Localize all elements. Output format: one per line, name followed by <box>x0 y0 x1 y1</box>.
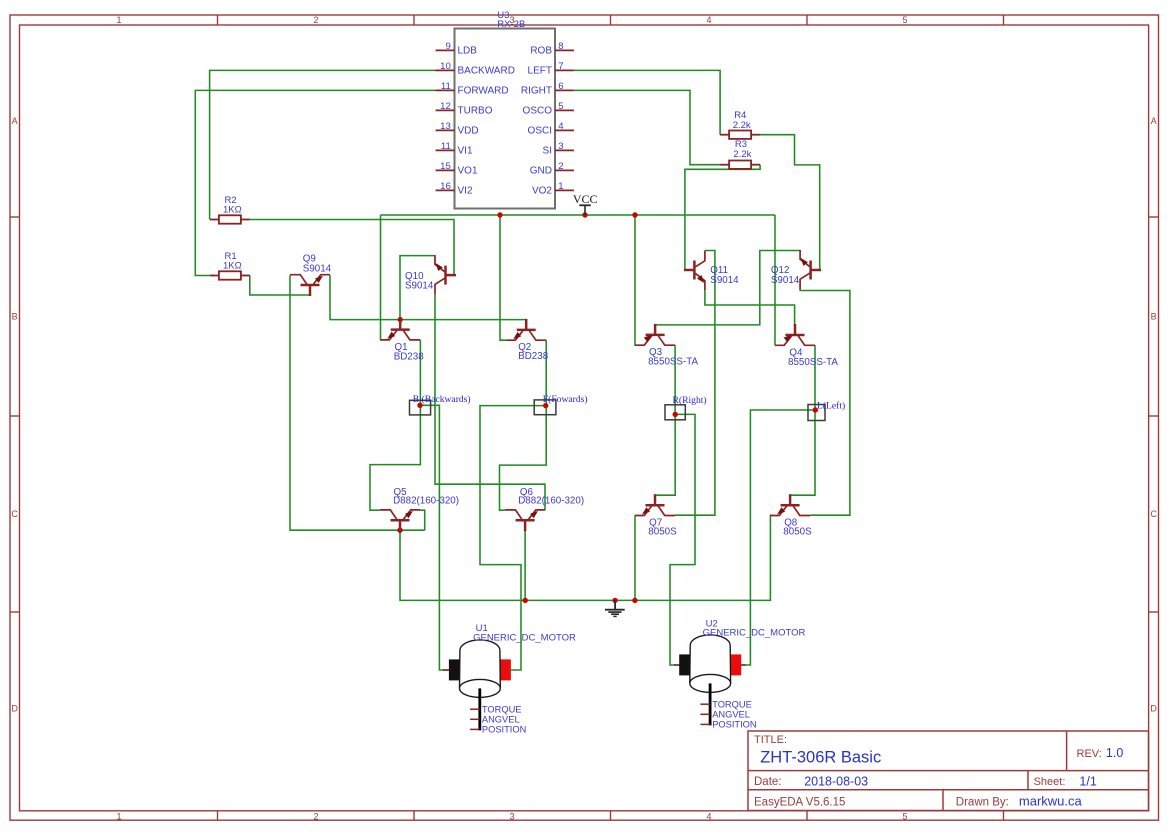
transistor Q1 BD238 <box>380 319 420 340</box>
svg-text:11: 11 <box>441 141 451 152</box>
svg-text:S9014: S9014 <box>303 264 332 275</box>
node R(Right) <box>665 395 707 420</box>
transistor Q11 S9014 <box>684 251 705 291</box>
pin 9 LDB <box>436 41 478 57</box>
wire Q6 base to ground rail <box>524 530 526 600</box>
svg-text:12: 12 <box>440 101 451 112</box>
wire Q12 emitter to Q3 base <box>655 251 800 325</box>
wire LEFT pin7 to R4 left <box>574 70 720 134</box>
transistor Q9 S9014 <box>290 275 330 296</box>
wire BACKWARD pin10 to R2 left <box>210 70 436 219</box>
resistor R1 1KΩ <box>210 251 250 280</box>
wire Q5 emitter loop <box>420 510 425 530</box>
node B (Backwards) <box>410 394 471 415</box>
wire node F to motor U1 terminal 2 <box>480 406 546 670</box>
junction Q1 base <box>398 317 403 322</box>
junction ground flag <box>612 598 617 603</box>
svg-text:4: 4 <box>706 811 711 821</box>
svg-text:TURBO: TURBO <box>458 106 493 117</box>
svg-text:2: 2 <box>313 811 318 821</box>
svg-text:ANGVEL: ANGVEL <box>482 715 520 725</box>
wire FORWARD pin11 to R1 left <box>195 90 436 275</box>
wire VCC to Q1 emitter <box>379 215 381 340</box>
svg-text:ROB: ROB <box>530 46 552 57</box>
svg-text:SI: SI <box>543 146 552 157</box>
lead motor U2 terminal 2 <box>741 664 746 666</box>
title block <box>748 731 1149 811</box>
transistor Q2 BD238 <box>506 319 546 340</box>
svg-text:S9014: S9014 <box>405 281 434 292</box>
svg-text:D: D <box>1150 704 1157 714</box>
transistor Q5 D882(160-320) <box>380 510 420 531</box>
transistor Q8 8050S <box>770 494 810 515</box>
svg-text:A: A <box>1151 116 1157 126</box>
svg-text:11: 11 <box>441 81 451 92</box>
svg-text:F(Fowards): F(Fowards) <box>543 394 588 405</box>
svg-text:TORQUE: TORQUE <box>482 704 522 714</box>
pin 8 ROB <box>530 41 574 57</box>
svg-text:TITLE:: TITLE: <box>754 734 787 746</box>
svg-text:A: A <box>12 116 18 126</box>
svg-text:GND: GND <box>530 166 552 177</box>
svg-text:D882(160-320): D882(160-320) <box>393 496 459 507</box>
wire R2 right to Q10 base <box>250 220 455 276</box>
pin 12 TURBO <box>436 101 493 117</box>
svg-text:3: 3 <box>509 811 514 821</box>
pin 13 VDD <box>436 121 479 137</box>
svg-text:ANGVEL: ANGVEL <box>712 710 750 720</box>
ground <box>605 600 625 616</box>
node L(Left) <box>808 401 845 421</box>
wire R3 right to Q11 base <box>685 165 760 270</box>
svg-text:GENERIC_DC_MOTOR: GENERIC_DC_MOTOR <box>703 627 806 638</box>
transistor Q4 8550SS-TA <box>775 324 815 345</box>
svg-text:8050S: 8050S <box>783 526 812 537</box>
transistor Q7 8050S <box>635 494 675 515</box>
svg-text:Date:: Date: <box>754 776 782 788</box>
svg-text:VI2: VI2 <box>458 186 473 197</box>
svg-text:15: 15 <box>440 161 451 172</box>
svg-text:POSITION: POSITION <box>712 720 756 730</box>
svg-text:5: 5 <box>902 811 907 821</box>
svg-text:C: C <box>11 509 18 519</box>
svg-text:FORWARD: FORWARD <box>458 86 509 97</box>
svg-text:Sheet:: Sheet: <box>1034 776 1066 788</box>
svg-text:3: 3 <box>558 141 563 152</box>
pin 3 SI <box>543 141 574 157</box>
wire Q10 collector to Q6 emitter <box>435 295 545 511</box>
wire Q12 collector to Q8 collector <box>800 290 850 516</box>
pin 11 VI1 <box>436 141 473 157</box>
pin 16 VI2 <box>436 181 473 197</box>
wire R1 right to Q9 base <box>250 276 310 296</box>
svg-text:C: C <box>1150 509 1157 519</box>
svg-text:OSCI: OSCI <box>528 126 552 137</box>
pin 11 FORWARD <box>436 81 509 97</box>
svg-text:OSCO: OSCO <box>523 106 553 117</box>
wire node B to motor U1 terminal 1 <box>420 405 444 670</box>
svg-text:VDD: VDD <box>458 126 479 137</box>
wire Q2 collector through node F to Q6 collector <box>500 340 547 510</box>
svg-text:6: 6 <box>558 81 563 92</box>
svg-text:BD238: BD238 <box>394 352 425 363</box>
svg-text:LDB: LDB <box>458 46 478 57</box>
wire VCC to Q3 emitter <box>634 215 636 345</box>
junction ground Q7 <box>632 598 637 603</box>
svg-text:B: B <box>12 312 18 322</box>
wire Q11 emitter to Q4 base <box>705 290 795 326</box>
wire node L to motor U2 terminal 2 <box>745 410 816 665</box>
svg-text:REV:: REV: <box>1077 748 1102 760</box>
svg-text:8550SS-TA: 8550SS-TA <box>788 357 838 368</box>
pin 4 OSCI <box>528 121 574 137</box>
svg-text:B: B <box>1151 312 1157 322</box>
svg-text:D: D <box>11 704 18 714</box>
junction ground Q6 <box>523 598 528 603</box>
junction VCC-Q3 <box>632 212 637 217</box>
svg-text:GENERIC_DC_MOTOR: GENERIC_DC_MOTOR <box>473 632 576 643</box>
svg-text:TORQUE: TORQUE <box>712 699 752 709</box>
svg-text:10: 10 <box>440 61 451 72</box>
lead motor U2 terminal 1 <box>674 664 680 666</box>
svg-text:VO2: VO2 <box>532 186 552 197</box>
svg-text:LEFT: LEFT <box>528 66 552 77</box>
svg-text:S9014: S9014 <box>710 275 739 286</box>
svg-text:RX-2B: RX-2B <box>497 19 525 30</box>
svg-text:L(Left): L(Left) <box>817 401 845 412</box>
svg-text:BACKWARD: BACKWARD <box>458 66 515 77</box>
wire Q11 collector to Q7 collector <box>675 251 715 516</box>
junction Q5 base-emitter <box>397 528 402 533</box>
wire Q7 emitter to ground rail <box>634 515 636 600</box>
svg-text:Drawn By:: Drawn By: <box>956 797 1009 809</box>
svg-text:VCC: VCC <box>573 192 598 206</box>
junction VCC flag <box>582 212 587 217</box>
svg-text:5: 5 <box>902 15 907 25</box>
resistor R3 2.2k <box>720 139 760 169</box>
resistor R2 1KΩ <box>210 195 250 224</box>
svg-text:R(Right): R(Right) <box>673 395 707 406</box>
IC U3 RX-2B <box>455 10 556 208</box>
svg-text:2: 2 <box>558 161 563 172</box>
svg-text:1/1: 1/1 <box>1079 774 1096 788</box>
motor U1 GENERIC_DC_MOTOR <box>449 623 576 734</box>
svg-text:13: 13 <box>440 121 451 132</box>
svg-text:4: 4 <box>558 121 564 132</box>
svg-text:1: 1 <box>558 181 563 192</box>
wire R4 right to Q12 base <box>760 135 820 270</box>
transistor Q3 8550SS-TA <box>635 324 675 345</box>
svg-text:2018-08-03: 2018-08-03 <box>804 774 868 788</box>
power flag VCC <box>573 192 598 215</box>
svg-text:2.2k: 2.2k <box>733 149 751 160</box>
wire VCC to Q4 emitter <box>774 215 776 345</box>
svg-text:2: 2 <box>313 15 318 25</box>
svg-text:B (Backwards): B (Backwards) <box>413 394 471 405</box>
svg-text:9: 9 <box>445 41 450 52</box>
svg-text:7: 7 <box>558 61 563 72</box>
resistor R4 2.2k <box>720 110 760 139</box>
wire VCC to Q2 emitter <box>500 215 506 340</box>
svg-text:D882(160-320): D882(160-320) <box>518 496 584 507</box>
wire Q1 collector through node B to Q5 collector <box>370 340 420 510</box>
wire node R to motor U2 terminal 1 <box>670 414 695 665</box>
svg-text:1KΩ: 1KΩ <box>223 205 242 216</box>
svg-text:VO1: VO1 <box>458 166 478 177</box>
svg-text:1KΩ: 1KΩ <box>223 261 242 272</box>
transistor Q6 D882(160-320) <box>505 510 545 531</box>
svg-text:S9014: S9014 <box>771 275 800 286</box>
svg-text:16: 16 <box>440 181 451 192</box>
svg-text:ZHT-306R Basic: ZHT-306R Basic <box>760 748 881 766</box>
svg-text:1: 1 <box>116 15 121 25</box>
svg-text:8050S: 8050S <box>648 526 677 537</box>
svg-text:8: 8 <box>558 41 563 52</box>
wire RIGHT pin6 to R3 left <box>574 90 720 164</box>
wire Q3 collector through node R to Q7 base <box>655 345 675 495</box>
svg-text:BD238: BD238 <box>518 351 549 362</box>
svg-text:1.0: 1.0 <box>1106 746 1123 760</box>
pin 2 GND <box>530 161 574 177</box>
svg-text:POSITION: POSITION <box>482 725 526 735</box>
pin 10 BACKWARD <box>436 61 515 77</box>
wire Q9 emitter to Q1/Q2 base rail <box>330 275 526 320</box>
wire Q4 collector through node L to Q8 base <box>790 345 815 495</box>
lead motor U1 terminal 1 <box>443 669 449 671</box>
svg-text:RIGHT: RIGHT <box>521 86 552 97</box>
wire Q9 collector to Q5 base rail <box>290 275 425 530</box>
node F(Fowards) <box>534 394 587 414</box>
pin 5 OSCO <box>523 101 574 117</box>
pin 6 RIGHT <box>521 81 574 97</box>
junction VCC-Q2 <box>497 212 502 217</box>
svg-text:2.2k: 2.2k <box>733 120 751 131</box>
svg-text:8550SS-TA: 8550SS-TA <box>648 356 698 367</box>
wire Q10 emitter to Q1 base <box>400 256 435 320</box>
svg-text:VI1: VI1 <box>458 146 473 157</box>
transistor Q12 S9014 <box>800 250 821 289</box>
svg-text:markwu.ca: markwu.ca <box>1019 794 1083 809</box>
pin 1 VO2 <box>532 181 574 197</box>
svg-text:5: 5 <box>558 101 563 112</box>
svg-text:1: 1 <box>116 811 121 821</box>
svg-text:4: 4 <box>706 15 711 25</box>
wire ground rail <box>400 515 770 600</box>
wire VCC rail <box>381 214 776 216</box>
pin 15 VO1 <box>436 161 478 177</box>
transistor Q10 S9014 <box>435 255 456 295</box>
pin 7 LEFT <box>528 61 574 77</box>
svg-text:EasyEDA V5.6.15: EasyEDA V5.6.15 <box>754 797 845 809</box>
motor U2 GENERIC_DC_MOTOR <box>679 618 805 729</box>
